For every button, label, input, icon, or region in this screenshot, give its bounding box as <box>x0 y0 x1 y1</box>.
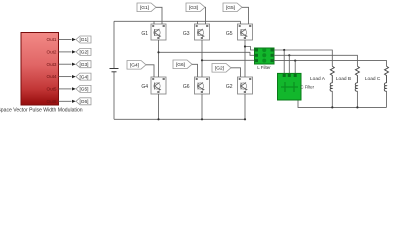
svg-text:Out2: Out2 <box>47 50 57 55</box>
svg-text:G6: G6 <box>183 84 190 90</box>
svg-text:Out1: Out1 <box>47 37 57 42</box>
svg-text:[G4]: [G4] <box>130 63 139 69</box>
svg-text:G1: G1 <box>141 31 148 37</box>
svg-text:[G6]: [G6] <box>176 62 185 68</box>
svg-text:Space Vector Pulse Width Modul: Space Vector Pulse Width Modulation <box>0 108 83 114</box>
svg-text:G4: G4 <box>141 84 148 90</box>
svg-text:[G5]: [G5] <box>79 87 88 93</box>
svg-text:Load C: Load C <box>365 76 381 82</box>
svg-text:G5: G5 <box>226 31 233 37</box>
svg-text:Out5: Out5 <box>47 87 57 92</box>
svg-text:L Filter: L Filter <box>257 65 271 70</box>
svg-text:[G1]: [G1] <box>79 37 88 43</box>
svg-text:G2: G2 <box>226 84 233 90</box>
svg-text:[G2]: [G2] <box>79 50 88 56</box>
svg-text:[G4]: [G4] <box>79 74 88 80</box>
svg-text:Load B: Load B <box>336 76 351 82</box>
svg-text:Out6: Out6 <box>47 99 57 104</box>
svg-text:G3: G3 <box>183 31 190 37</box>
svg-text:[G5]: [G5] <box>226 5 235 11</box>
svg-text:Load A: Load A <box>310 76 326 82</box>
svg-text:[G6]: [G6] <box>79 99 88 105</box>
svg-text:[G1]: [G1] <box>140 5 149 11</box>
svg-text:[G3]: [G3] <box>79 62 88 68</box>
svg-text:[G3]: [G3] <box>189 5 198 11</box>
svg-text:C Filter: C Filter <box>301 85 315 90</box>
svg-text:[G2]: [G2] <box>215 66 224 72</box>
svg-text:Out4: Out4 <box>47 74 57 79</box>
svg-text:Out3: Out3 <box>47 62 57 67</box>
